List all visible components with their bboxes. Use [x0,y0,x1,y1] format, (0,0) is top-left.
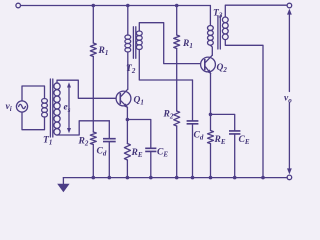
resistor RE stage2 [210,114,212,130]
wire T2 secondary top to Q2 base [139,23,205,64]
wire T1 secondary bottom to bias node [57,121,109,135]
svg-text:Q1: Q1 [134,96,144,107]
arrow vo lower [288,103,290,170]
transformer T2 core [133,27,135,59]
wire top supply rail [21,5,211,7]
svg-text:R2: R2 [78,137,89,148]
arrow vo upper [287,9,292,15]
wire T1 secondary top to Q1 base [57,80,120,98]
capacitor Cd stage1 [108,121,110,139]
wire R1 to R2 stage2 [176,49,178,112]
svg-text:Cd: Cd [194,131,204,142]
node RE stage2 on rail [209,176,213,180]
wire T3 secondary bottom to ground rail [225,40,263,178]
resistor R1 stage1 [92,6,94,44]
wire Q1 emitter down [126,107,128,119]
node CE stage2 on rail [233,176,237,180]
terminal top-left input [16,3,21,8]
svg-text:R1: R1 [182,39,193,50]
svg-text:RE: RE [214,135,226,146]
svg-text:R1: R1 [98,46,109,57]
source vi [16,101,27,112]
wire R1 to R2 stage1 [92,57,94,133]
node junction T2 primary on rail [126,4,130,8]
node emitter junction Q1 [126,118,130,122]
resistor R1 stage2 [176,6,178,36]
capacitor CE stage1 [127,120,150,149]
svg-text:R2: R2 [163,110,174,121]
node Cd stage2 on rail [191,176,195,180]
node CE stage1 on rail [149,176,153,180]
wire Q1 collector to T2 primary [127,52,129,89]
wire R2 stage1 to ground rail [92,145,94,178]
svg-text:Cd: Cd [97,147,107,158]
svg-text:CE: CE [157,148,168,159]
wire T3 secondary top to output terminal [225,5,287,17]
resistor R2 stage2 [174,111,180,126]
transformer T3 primary winding [208,6,214,46]
resistor RE stage1 [126,120,128,144]
svg-text:T2: T2 [126,64,136,75]
resistor R2 stage1 [90,132,96,145]
terminal top-right output [287,3,292,8]
transformer T2 primary winding [125,6,131,53]
wire bottom ground rail [63,177,287,179]
transformer T3 core [218,16,220,49]
transistor Q2 [201,55,216,74]
node R2 stage2 on rail [175,176,179,180]
wire Q2 collector to T3 primary [210,45,212,55]
node RE stage1 on rail [126,176,130,180]
wire vi top to T1 primary top [22,86,45,101]
node junction R1 stage2 on rail [175,4,179,8]
svg-text:vo: vo [284,94,292,105]
wire R2 stage2 to ground rail [176,126,178,178]
transformer T1 core [50,79,52,137]
capacitor CE stage2 [211,114,235,130]
node R2 stage1 on rail [92,176,96,180]
svg-text:vi: vi [6,102,12,113]
arrow es across T1 secondary [67,82,71,133]
svg-text:RE: RE [131,148,143,159]
svg-text:Q2: Q2 [217,63,228,74]
node emitter junction Q2 [209,113,213,117]
node junction R1 stage1 on rail [92,4,96,8]
capacitor Cd stage2 [192,80,194,121]
wire vi bottom to T1 primary bottom [22,112,45,130]
transformer T1 primary winding [42,98,48,117]
transistor Q1 [116,89,131,108]
svg-text:T3: T3 [213,9,223,20]
ground [57,178,69,193]
terminal bottom-right output [287,175,292,180]
wire T2 secondary bottom to stage2 bias node [139,50,192,81]
transformer T1 secondary winding [54,83,60,135]
wire Q2 emitter down [210,73,212,114]
transformer T2 secondary winding [136,31,142,50]
svg-text:CE: CE [239,135,250,146]
transformer T3 secondary winding [222,17,228,40]
node T3 secondary bottom on rail [261,176,265,180]
node Cd stage1 on rail [108,176,112,180]
